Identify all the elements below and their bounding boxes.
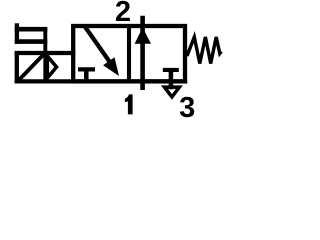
svg-text:3: 3 (179, 92, 195, 118)
svg-text:2: 2 (115, 0, 131, 28)
